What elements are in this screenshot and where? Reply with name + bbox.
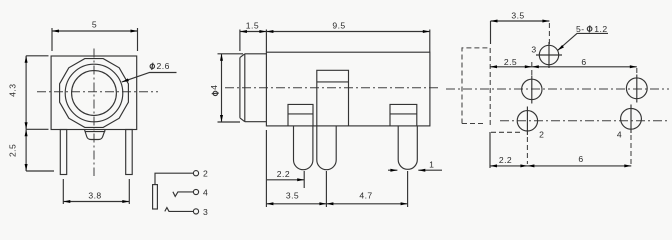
svg-text:3.5: 3.5: [286, 191, 299, 201]
svg-text:6: 6: [581, 57, 586, 67]
svg-text:2.5: 2.5: [7, 144, 17, 157]
pin 2 (side): [317, 126, 336, 170]
dimension 4.3 (left): [26, 56, 48, 130]
svg-text:2.6: 2.6: [157, 61, 170, 71]
pin 3 (side): [398, 126, 417, 169]
svg-text:2: 2: [539, 130, 544, 140]
dimension 3.5 (layout top): [491, 20, 550, 22]
hole4 center hidden extension: [630, 135, 632, 164]
svg-text:1: 1: [429, 159, 434, 169]
svg-text:3.5: 3.5: [511, 11, 524, 21]
pin 3 circle: [193, 209, 198, 214]
pin3 center extension: [407, 171, 409, 207]
hole 3 (top): [539, 45, 558, 64]
svg-text:5: 5: [92, 20, 97, 30]
pin1 center tick: [303, 171, 305, 188]
dimension 4.7 (side): [326, 203, 407, 205]
pin2 center extension: [325, 171, 327, 207]
svg-text:2.2: 2.2: [277, 169, 290, 179]
dimension 1.5: [240, 30, 267, 53]
svg-text:4: 4: [617, 130, 622, 140]
dimension phi4: [218, 54, 244, 122]
svg-text:9.5: 9.5: [332, 21, 345, 31]
right contact block: [390, 104, 417, 126]
hidden body rectangle: [462, 48, 490, 124]
bottom row centerline: [500, 120, 668, 122]
barrel top and bottom: [245, 54, 267, 122]
extension line top (solid): [490, 21, 492, 44]
right leg: [126, 130, 133, 175]
hole 5 (middle right): [626, 78, 647, 99]
left contact block: [288, 104, 313, 126]
leader line phi2.6: [122, 73, 177, 83]
svg-text:5-: 5-: [576, 24, 585, 34]
dimension 1 (pin width): [388, 169, 442, 171]
dimension 2.5 / 6 (layout middle): [490, 66, 637, 68]
pin 2 circle: [193, 171, 198, 176]
side body rectangle: [266, 52, 430, 126]
hole2 center hidden extension: [526, 137, 528, 164]
pin 4 circle: [193, 189, 198, 194]
barrel tip face: [239, 58, 241, 118]
inner hole circle: [72, 71, 117, 116]
center tab: [85, 130, 106, 140]
hole 4 (bottom right): [621, 108, 642, 129]
svg-text:4.7: 4.7: [359, 191, 372, 201]
svg-text:3.8: 3.8: [88, 190, 101, 200]
vertical centerline: [93, 49, 95, 177]
extension line from body left edge: [265, 130, 267, 207]
leader 5-phi1.2: [558, 33, 609, 50]
wire to pin 2: [155, 173, 193, 184]
long hidden extension line: [489, 48, 491, 127]
middle shield block: [317, 70, 349, 126]
outer nut dodecagon: [60, 59, 129, 128]
svg-text:3: 3: [531, 45, 536, 55]
svg-text:1.5: 1.5: [246, 21, 259, 31]
svg-text:4: 4: [203, 187, 208, 197]
switch contact V and wire to pin 4: [173, 192, 194, 197]
left leg: [60, 130, 66, 175]
dimension 3.5 (side): [266, 203, 326, 205]
contact bump and wire to pin 3: [165, 208, 194, 212]
dimension 2.2 / 6 (layout bottom): [490, 165, 631, 167]
dimension 3.8 (bottom): [63, 179, 129, 204]
svg-text:2: 2: [203, 169, 208, 179]
extension line solid (bottom left): [489, 132, 491, 168]
middle circle: [65, 64, 123, 122]
hidden edge segment: [491, 131, 521, 133]
hole 1 (middle left): [522, 79, 542, 99]
svg-text:4.3: 4.3: [7, 84, 17, 97]
svg-text:2.2: 2.2: [499, 155, 512, 165]
svg-text:6: 6: [578, 154, 583, 164]
pin 1 (side): [294, 126, 313, 170]
middle row centerline: [446, 88, 669, 90]
svg-text:1.2: 1.2: [594, 24, 607, 34]
front body square: [51, 56, 137, 130]
dimension 9.5: [266, 30, 429, 53]
dimension 5 (top): [52, 28, 138, 51]
sleeve rectangle: [153, 185, 158, 209]
horizontal centerline: [37, 91, 158, 93]
svg-text:3: 3: [203, 207, 208, 217]
dimension 2.2 (side): [267, 179, 304, 181]
horizontal centerline: [225, 87, 438, 89]
hole 2 (bottom left): [517, 111, 537, 131]
barrel chamfer edge: [240, 54, 245, 122]
svg-text:2.5: 2.5: [504, 57, 517, 67]
dimension 2.5 (left lower): [26, 129, 54, 171]
svg-text:4: 4: [209, 85, 219, 90]
